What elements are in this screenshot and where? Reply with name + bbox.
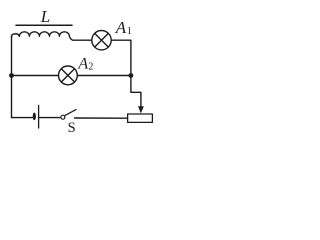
svg-text:S: S xyxy=(68,120,76,136)
svg-text:A: A xyxy=(115,18,127,37)
battery negative plate (thick) xyxy=(33,113,36,121)
rheostat wiper arrow head xyxy=(138,106,144,113)
battery positive plate xyxy=(38,105,40,128)
junction node: right A2 tap xyxy=(129,73,134,78)
wire: battery to switch xyxy=(39,117,60,119)
wire: bottom left to battery xyxy=(12,117,33,119)
svg-text:A: A xyxy=(77,56,88,73)
iron core line over coil xyxy=(16,24,72,26)
rheostat body R xyxy=(128,114,153,122)
svg-text:L: L xyxy=(40,7,50,26)
switch S pivot xyxy=(61,115,65,119)
wire: left vertical branch xyxy=(11,36,13,118)
svg-text:2: 2 xyxy=(88,62,93,73)
wire: A2 branch right xyxy=(77,75,131,77)
wire: lamp A1 to right vertical xyxy=(111,40,131,92)
junction node: left A2 tap xyxy=(9,73,14,78)
wire: A2 branch left xyxy=(12,75,59,77)
lamp A1 xyxy=(92,31,111,50)
svg-text:1: 1 xyxy=(127,26,132,37)
wire: jog to rheostat wiper xyxy=(131,92,141,107)
inductor L coil xyxy=(12,32,92,40)
lamp A2 xyxy=(59,66,78,85)
switch S blade xyxy=(65,110,76,116)
wire: switch to rheostat xyxy=(75,117,128,119)
